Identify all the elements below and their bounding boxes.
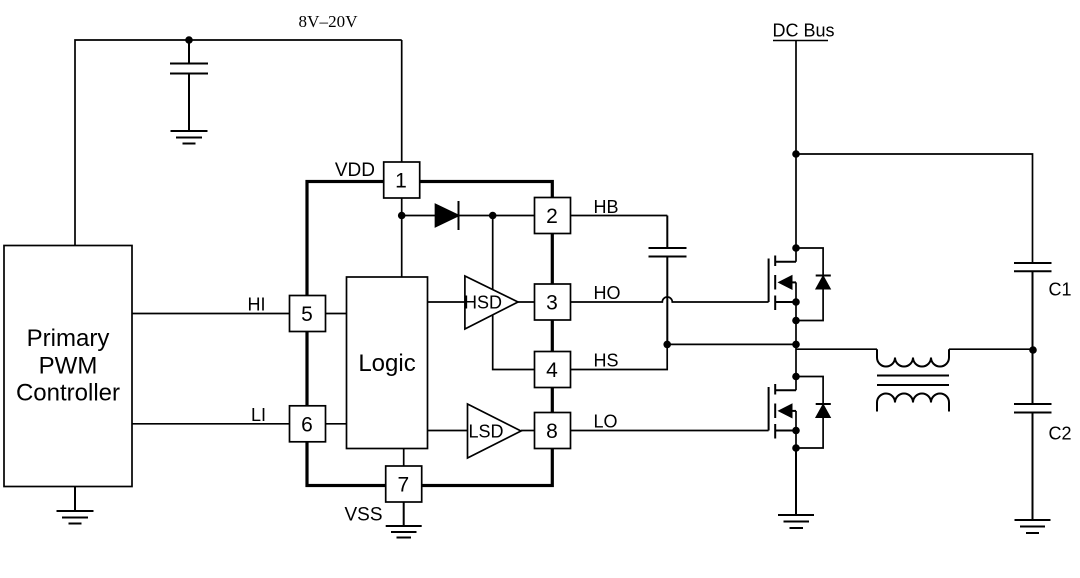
wire logic to pin7	[403, 449, 405, 467]
gate bar Q2	[768, 387, 770, 431]
wire transformer to C-divider	[949, 348, 1033, 350]
wire pin1 to logic	[401, 198, 403, 277]
node DC bus tap	[792, 150, 800, 158]
ground (bypass cap)	[171, 131, 208, 144]
svg-text:3: 3	[546, 292, 558, 315]
capacitor C2	[1014, 350, 1052, 520]
svg-text:6: 6	[301, 413, 313, 436]
gate bar Q1	[768, 259, 770, 303]
svg-text:HO: HO	[594, 283, 621, 303]
pin 5	[290, 296, 326, 332]
node switch node	[792, 341, 800, 349]
svg-text:HB: HB	[594, 197, 619, 217]
source lead Q1	[775, 301, 796, 303]
Primary PWM Controller box	[4, 246, 132, 487]
node Q2 diode return	[792, 444, 800, 452]
svg-text:5: 5	[301, 303, 313, 326]
wire HS rail right	[796, 348, 877, 350]
wire diode cathode to pin2	[459, 215, 535, 217]
capacitor VDD bypass	[170, 40, 208, 131]
ground (C2)	[1015, 520, 1051, 533]
wire logic to LSD	[428, 430, 468, 432]
wire HB	[571, 215, 668, 217]
svg-text:LSD: LSD	[469, 421, 504, 441]
pin 4	[535, 352, 571, 388]
svg-text:1: 1	[395, 170, 407, 193]
pin 1	[384, 162, 420, 198]
drain lead Q2	[775, 389, 796, 391]
capacitor C1	[1014, 263, 1052, 350]
node C divider	[1029, 346, 1037, 354]
svg-text:HI: HI	[248, 295, 266, 315]
wire logic to HSD	[428, 301, 465, 303]
pin 3	[535, 284, 571, 320]
node Q1 diode return	[792, 317, 800, 325]
svg-text:VDD: VDD	[335, 160, 375, 181]
node supply junction	[185, 36, 193, 44]
node HS bootstrap	[663, 341, 671, 349]
pin 7	[386, 466, 422, 502]
svg-text:HS: HS	[594, 351, 619, 371]
buffer LSD	[468, 404, 522, 458]
Logic block	[347, 277, 428, 449]
capacitor bootstrap	[649, 216, 687, 345]
transistor Q1 high-side MOSFET	[769, 256, 796, 311]
buffer HSD	[465, 276, 518, 329]
svg-text:7: 7	[397, 474, 409, 497]
transformer T1 core	[877, 376, 949, 386]
node Q1 drain	[792, 244, 800, 252]
wire HB to HS internal	[493, 216, 535, 370]
pin 8	[535, 413, 571, 449]
wire pin5 to logic	[326, 313, 347, 315]
node VDD internal	[398, 212, 406, 220]
node HB internal	[489, 212, 497, 220]
wire LSD to pin8	[521, 430, 535, 432]
channel dashes Q2	[774, 384, 776, 439]
diode bootstrap	[436, 205, 459, 227]
svg-text:VSS: VSS	[344, 505, 382, 526]
wire VDD pin1 top	[401, 40, 403, 163]
svg-text:Controller: Controller	[16, 380, 120, 407]
body arrow Q2	[780, 405, 792, 417]
wire supply rail 8V-20V	[75, 40, 402, 246]
svg-text:2: 2	[546, 205, 558, 228]
node Q2 drain	[792, 373, 800, 381]
wire LO	[571, 430, 769, 432]
wire DC bus to C1	[796, 154, 1033, 263]
svg-text:8: 8	[546, 420, 558, 443]
wire HSD to pin3	[518, 301, 535, 303]
wire HO with crossover hump	[571, 297, 769, 302]
wire pin6 to logic	[326, 423, 347, 425]
svg-text:C1: C1	[1049, 280, 1072, 300]
body diode Q1	[796, 248, 823, 321]
body diode Q2	[796, 377, 823, 449]
IC boundary	[307, 182, 552, 486]
svg-text:DC Bus: DC Bus	[773, 21, 835, 41]
transformer T1 primary	[877, 349, 949, 366]
wire HS rail	[667, 343, 796, 345]
ground (Q2 source)	[778, 448, 814, 528]
transformer T1 secondary	[877, 394, 949, 412]
svg-text:LI: LI	[251, 405, 266, 425]
pin 6	[290, 406, 326, 442]
wire DC bus vertical	[795, 41, 797, 345]
source lead Q2	[775, 430, 796, 432]
svg-text:PWM: PWM	[39, 353, 98, 380]
wire HI	[132, 313, 290, 315]
svg-text:HSD: HSD	[464, 292, 502, 312]
ground (VSS)	[386, 502, 422, 538]
wire diode anode	[402, 215, 436, 217]
ground (PWM controller)	[57, 487, 94, 524]
node Q1 source lead	[792, 298, 800, 306]
svg-text:Logic: Logic	[358, 350, 415, 377]
node Q2 source lead	[792, 427, 800, 435]
wire HS	[571, 344, 668, 369]
channel dashes Q1	[774, 256, 776, 311]
pin 2	[535, 198, 571, 234]
svg-text:Primary: Primary	[27, 325, 110, 352]
wire Q2 drain	[795, 344, 797, 448]
wire LI	[132, 423, 290, 425]
svg-text:8V–20V: 8V–20V	[299, 12, 359, 31]
drain lead Q1	[775, 261, 796, 263]
svg-text:LO: LO	[594, 412, 618, 432]
svg-text:C2: C2	[1049, 424, 1072, 444]
svg-text:4: 4	[546, 359, 558, 382]
transistor Q2 low-side MOSFET	[769, 384, 796, 439]
body arrow Q1	[780, 276, 792, 288]
